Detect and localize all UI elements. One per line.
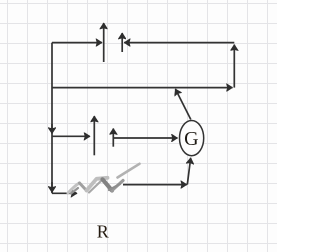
current arrow I1 (long, up) — [103, 23, 105, 62]
arrow on left vertical (down) — [51, 124, 53, 134]
galvanometer G (ellipse) — [180, 121, 204, 156]
wire: right vertical with up arrow — [233, 45, 235, 88]
current arrow I3 (long, up) — [93, 116, 95, 155]
wire: vertical from bottom wire up to G with arrow — [187, 158, 190, 185]
wire: diagonal from G top to middle wire with arrow — [175, 89, 190, 120]
wire: middle-left branch with right arrow — [52, 135, 90, 137]
resistor R (hand-drawn brush squiggle) — [68, 164, 140, 194]
wire: middle horizontal with right arrow — [52, 87, 233, 89]
wire: horizontal into galvanometer with right arrow — [113, 137, 177, 139]
wire: bottom-left horizontal with right arrow — [52, 192, 77, 194]
wire: top-left horizontal with right arrow — [52, 42, 102, 44]
current arrow I4 (short, up) — [112, 129, 114, 147]
arrow at bottom of left vertical (down) — [51, 182, 53, 192]
svg-text:R: R — [97, 222, 109, 242]
wire: bottom-right horizontal with right arrow — [123, 184, 187, 186]
wire: top-right horizontal with left arrow — [124, 42, 234, 44]
wire: left vertical — [51, 43, 53, 194]
svg-text:G: G — [184, 128, 198, 150]
current arrow I2 (short, up) — [121, 33, 123, 52]
